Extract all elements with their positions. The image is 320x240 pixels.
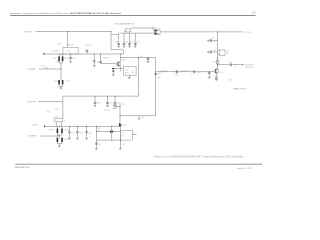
node junction supply tap bbox=[67, 31, 68, 32]
capacitor C253 bbox=[208, 39, 218, 42]
wire RX collector vertical bbox=[119, 104, 121, 127]
wire buffer output line bbox=[218, 64, 231, 66]
svg-text:C315: C315 bbox=[64, 139, 68, 141]
svg-text:R202: R202 bbox=[58, 44, 62, 46]
wire 9V3 supply rail bbox=[36, 31, 112, 33]
capacitor C210 series bbox=[154, 73, 157, 74]
svg-text:C320 3R3: C320 3R3 bbox=[31, 124, 38, 126]
ground tick on RX link bbox=[138, 116, 140, 119]
capacitor C221 bbox=[123, 33, 126, 47]
wire T301 output bbox=[132, 134, 136, 136]
svg-text:C708: C708 bbox=[141, 117, 145, 119]
svg-text:9R5: 9R5 bbox=[140, 56, 143, 58]
header rule bbox=[10, 14, 256, 16]
svg-text:C307: C307 bbox=[88, 132, 92, 134]
footer rule bbox=[15, 163, 262, 165]
svg-text:3R3: 3R3 bbox=[158, 78, 161, 80]
wire 5V output line bbox=[160, 31, 243, 33]
svg-text:C255: C255 bbox=[175, 75, 179, 77]
svg-text:C210: C210 bbox=[158, 73, 162, 75]
wire collector out line 9R5 bbox=[121, 57, 156, 59]
svg-text:C306: C306 bbox=[79, 132, 83, 134]
svg-text:R301: R301 bbox=[55, 116, 59, 118]
capacitor C209 bbox=[147, 58, 150, 63]
svg-text:6881094C31-A: 6881094C31-A bbox=[15, 166, 30, 169]
svg-text:18: 18 bbox=[113, 132, 115, 134]
svg-text:C7: C7 bbox=[134, 133, 136, 135]
svg-text:C202: C202 bbox=[72, 58, 76, 60]
svg-text:TX 5V (5R): TX 5V (5R) bbox=[244, 32, 252, 34]
ground RX varactor bbox=[58, 144, 61, 147]
svg-text:C205 11P: C205 11P bbox=[85, 45, 92, 47]
capacitor C220 bbox=[117, 34, 120, 47]
svg-text:C201 3R3: C201 3R3 bbox=[52, 51, 59, 53]
wire steer line bbox=[39, 68, 61, 70]
capacitor C262 series bbox=[229, 63, 231, 66]
svg-text:L252: L252 bbox=[226, 51, 230, 53]
svg-text:D251: D251 bbox=[152, 27, 156, 29]
capacitor C307 bbox=[85, 126, 88, 139]
svg-text:L201: L201 bbox=[67, 51, 71, 53]
svg-text:R302: R302 bbox=[47, 112, 51, 114]
svg-text:C204 18P: C204 18P bbox=[67, 44, 74, 46]
wire filter line bbox=[119, 32, 155, 34]
wire supply drop to L201 bbox=[67, 32, 69, 48]
svg-text:SF 9V3 TX: SF 9V3 TX bbox=[24, 31, 33, 33]
svg-text:C305: C305 bbox=[71, 132, 75, 134]
svg-text:47: 47 bbox=[191, 75, 193, 77]
svg-text:C317: C317 bbox=[121, 144, 125, 146]
diode D251 pair bbox=[154, 29, 160, 35]
wire TX oscillator tank rail bbox=[44, 53, 124, 55]
svg-text:C223: C223 bbox=[136, 42, 140, 44]
svg-text:C263: C263 bbox=[228, 79, 232, 81]
svg-text:R254 100: R254 100 bbox=[183, 70, 190, 72]
svg-text:C212: C212 bbox=[125, 70, 129, 72]
wire RX steer line bbox=[40, 135, 59, 137]
node rail left terminal bbox=[43, 53, 45, 55]
wire R301 to RX rail bbox=[55, 122, 57, 127]
svg-text:9R5: 9R5 bbox=[132, 72, 135, 74]
svg-text:CR1: CR1 bbox=[53, 58, 56, 60]
svg-text:C316: C316 bbox=[98, 144, 102, 146]
svg-text:TX STEER: TX STEER bbox=[27, 69, 36, 71]
capacitor C205 upper bbox=[86, 49, 89, 54]
svg-text:Q251: Q251 bbox=[220, 72, 224, 74]
svg-text:CR204: CR204 bbox=[54, 81, 59, 83]
wire buffer rail bbox=[217, 32, 219, 67]
svg-text:August 29, 2007: August 29, 2007 bbox=[237, 167, 253, 170]
wire V3 supply riser bbox=[138, 58, 140, 97]
node junction base line bbox=[160, 71, 161, 72]
svg-text:C215: C215 bbox=[57, 87, 61, 89]
capacitor C313 series dark bbox=[110, 130, 113, 133]
svg-text:C221: C221 bbox=[125, 42, 129, 44]
wire box links bbox=[121, 68, 131, 78]
svg-text:Q301: Q301 bbox=[123, 125, 127, 127]
svg-text:T301: T301 bbox=[122, 133, 126, 135]
wire RX supply stub bbox=[38, 101, 63, 103]
wire base line bbox=[156, 71, 214, 73]
svg-text:C304 .01: C304 .01 bbox=[104, 109, 110, 111]
capacitor C231 base feed bbox=[99, 54, 116, 64]
node junction varactor tap bbox=[61, 54, 62, 55]
wire RX oscillator rail bbox=[44, 125, 120, 127]
node rail left terminal RX bbox=[44, 125, 46, 127]
capacitor C256 series bbox=[194, 70, 195, 73]
capacitor C223 bbox=[134, 33, 137, 47]
svg-text:C254: C254 bbox=[212, 50, 216, 52]
svg-text:R252: R252 bbox=[212, 62, 216, 64]
svg-text:.01: .01 bbox=[212, 41, 214, 43]
svg-text:C262: C262 bbox=[229, 62, 233, 64]
wire Q201 emitter cluster bbox=[113, 66, 121, 71]
svg-text:C222: C222 bbox=[130, 42, 134, 44]
inductor L201 shield box bbox=[63, 47, 78, 54]
wire supply ladder drop bbox=[110, 32, 112, 50]
svg-text:C301: C301 bbox=[97, 103, 101, 105]
transistor Q301 bbox=[119, 123, 122, 126]
svg-text:R206: R206 bbox=[45, 68, 49, 70]
capacitor C208 feedback bbox=[112, 68, 115, 75]
svg-text:R207: R207 bbox=[125, 72, 129, 74]
resistor R309 bbox=[114, 105, 117, 109]
resistor R301 bbox=[55, 118, 63, 122]
node junction steer bbox=[61, 69, 62, 70]
resistor network box R207 bbox=[123, 66, 136, 75]
node junction collector out bbox=[120, 57, 121, 58]
svg-text:R205: R205 bbox=[41, 66, 45, 68]
svg-text:Figure 1-21. AUD4023A/AUD4025B: Figure 1-21. AUD4023A/AUD4025B VHF Trans… bbox=[154, 154, 244, 158]
capacitor C302 bbox=[106, 96, 109, 107]
capacitor C305 bbox=[68, 126, 71, 139]
node junction buffer feed bbox=[217, 31, 218, 32]
wire mid vertical bbox=[111, 126, 113, 140]
node junction RX varactor tap bbox=[59, 126, 60, 127]
svg-text:L301: L301 bbox=[55, 109, 59, 111]
varactor CR303 bbox=[57, 138, 63, 144]
wire RX supply drop to R301 bbox=[62, 102, 64, 119]
node junction base line 2 bbox=[181, 71, 182, 72]
transistor Q201 bbox=[116, 62, 121, 67]
wire RX bottom line bbox=[96, 139, 120, 141]
wire L251 feed bbox=[131, 27, 153, 29]
svg-text:CR302: CR302 bbox=[64, 129, 69, 131]
wire ladder to rail bbox=[122, 50, 124, 54]
transformer T301 box bbox=[120, 131, 132, 140]
wire ladder bottom bbox=[111, 49, 123, 51]
varactor CR301 bbox=[57, 126, 63, 135]
varactor CR201 bbox=[58, 54, 63, 63]
ground RX right bbox=[119, 147, 122, 150]
svg-text:1K: 1K bbox=[64, 120, 66, 122]
varactor CR203 bbox=[58, 80, 63, 86]
svg-text:33: 33 bbox=[234, 65, 236, 67]
svg-text:Schematics, Component Location: Schematics, Component Location Diagrams,… bbox=[10, 12, 121, 15]
wire right vertical ground bbox=[119, 126, 121, 148]
capacitor C202 bbox=[69, 54, 72, 62]
capacitor C222 bbox=[128, 33, 131, 47]
svg-text:TX VCO AND BUFFER 5R: TX VCO AND BUFFER 5R bbox=[114, 22, 135, 25]
resistor R255 emitter bbox=[215, 73, 218, 80]
wire Q301 base line bbox=[96, 131, 120, 133]
svg-text:R311: R311 bbox=[97, 128, 101, 130]
svg-text:CR202: CR202 bbox=[56, 62, 61, 64]
capacitor C255 series bbox=[176, 70, 177, 73]
svg-text:C313: C313 bbox=[104, 132, 108, 134]
capacitor C257 bbox=[208, 72, 211, 78]
wire Q201 collector bbox=[120, 54, 122, 62]
wire RX osc link bbox=[120, 115, 156, 117]
svg-text:CR202: CR202 bbox=[64, 58, 69, 60]
svg-text:R253 51: R253 51 bbox=[162, 70, 168, 72]
svg-text:C310: C310 bbox=[121, 104, 125, 106]
capacitor C303 bbox=[114, 96, 117, 107]
svg-text:C216: C216 bbox=[67, 81, 71, 83]
node junction C202 bbox=[70, 54, 71, 55]
svg-text:Q201: Q201 bbox=[122, 60, 126, 62]
node junction output bbox=[217, 64, 218, 65]
capacitor C316 bbox=[95, 143, 98, 144]
wire varactor to steer junction bbox=[60, 63, 62, 80]
svg-text:RX STEER: RX STEER bbox=[28, 136, 37, 138]
resonator Y251 bbox=[218, 50, 225, 56]
capacitor C206 bbox=[93, 54, 96, 66]
svg-text:1-9: 1-9 bbox=[252, 12, 256, 15]
capacitor C301 bbox=[94, 96, 97, 107]
svg-text:MAEPF-27857-O: MAEPF-27857-O bbox=[234, 88, 248, 91]
svg-text:C302: C302 bbox=[109, 103, 113, 105]
svg-text:C220: C220 bbox=[115, 42, 119, 44]
svg-text:C256: C256 bbox=[197, 72, 201, 74]
wire V2 coupling drop bbox=[155, 58, 157, 117]
svg-text:CR301: CR301 bbox=[49, 129, 54, 131]
svg-text:130MV RMS: 130MV RMS bbox=[245, 67, 254, 69]
inductor L251 bbox=[125, 29, 131, 32]
svg-text:390: 390 bbox=[226, 53, 229, 55]
ground left branch bbox=[95, 148, 98, 151]
ground varactor branch bbox=[60, 86, 63, 89]
wire RX supply top line bbox=[63, 95, 139, 97]
svg-text:5R TX/RX INJ: 5R TX/RX INJ bbox=[245, 65, 255, 67]
svg-text:SF 9V3 RX: SF 9V3 RX bbox=[27, 101, 36, 103]
capacitor C306 bbox=[76, 126, 79, 139]
wire ladder upper link bbox=[111, 33, 119, 35]
svg-text:RX: RX bbox=[122, 135, 124, 137]
wire RX left branch bbox=[95, 126, 97, 148]
transistor Q251 bbox=[214, 69, 219, 74]
svg-text:R204 221: R204 221 bbox=[104, 57, 111, 59]
wire rail to collector bbox=[217, 65, 219, 69]
capacitor C254 bbox=[208, 51, 218, 54]
